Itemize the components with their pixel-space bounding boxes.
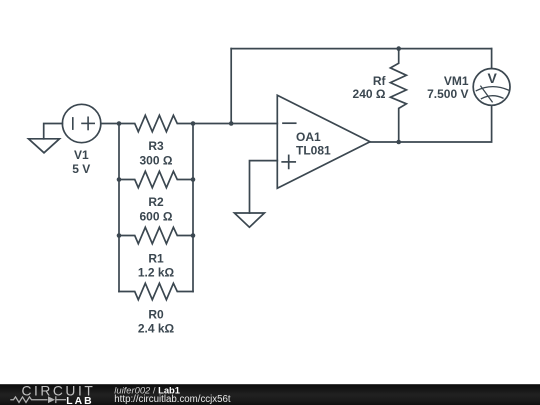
footer credit line xyxy=(114,384,231,405)
resistor R3 xyxy=(119,115,193,131)
junction: left rail at R3 xyxy=(117,121,122,126)
wire: right rail of resistor ladder xyxy=(192,124,194,292)
wire: op-amp output net xyxy=(370,105,492,142)
wire: V1 positive lead to ladder left rail xyxy=(101,123,119,125)
svg-text:1.2 kΩ: 1.2 kΩ xyxy=(138,265,175,279)
label R1 value xyxy=(138,251,175,279)
voltmeter VM1 xyxy=(473,69,510,106)
voltage source V1 xyxy=(62,104,100,142)
label R3 value xyxy=(140,139,173,167)
logo CircuitLab wordmark CIRCUIT xyxy=(22,384,96,399)
logo wordmark LAB xyxy=(66,396,93,405)
label R0 value xyxy=(138,307,175,335)
junction: right rail at R3 xyxy=(191,121,196,126)
footer bar xyxy=(0,384,540,405)
svg-text:R0: R0 xyxy=(148,307,164,321)
svg-text:5 V: 5 V xyxy=(72,162,90,176)
ground (at V1) xyxy=(29,139,60,153)
ground (at OA1 non-inverting input) xyxy=(234,213,264,227)
svg-text:Rf: Rf xyxy=(373,74,387,88)
svg-text:7.500 V: 7.500 V xyxy=(427,87,468,101)
junction: feedback riser on input net xyxy=(229,121,234,126)
svg-text:V1: V1 xyxy=(74,148,89,162)
svg-text:300 Ω: 300 Ω xyxy=(140,153,173,167)
label OA1 part xyxy=(296,130,331,158)
wire: feedback net vertical riser xyxy=(230,49,232,124)
wire: feedback net top horizontal xyxy=(231,48,491,50)
label V1 value xyxy=(72,148,90,176)
op-amp OA1 xyxy=(277,95,370,188)
label R2 value xyxy=(140,195,173,223)
svg-text:240 Ω: 240 Ω xyxy=(353,87,386,101)
logo resistor-diode squiggle xyxy=(10,396,66,403)
svg-text:R2: R2 xyxy=(148,195,164,209)
label Rf value xyxy=(353,74,387,101)
junction: right rail at R1 xyxy=(191,233,196,238)
junction: Rf top on feedback net xyxy=(396,46,401,51)
resistor R1 xyxy=(119,227,193,243)
wire: non-inverting input to ground xyxy=(250,161,278,213)
junction: right rail at R2 xyxy=(191,177,196,182)
label V inside voltmeter VM1 xyxy=(488,70,498,86)
wire: ladder right rail to op-amp inverting input xyxy=(193,123,277,125)
svg-text:http://circuitlab.com/ccjx56t: http://circuitlab.com/ccjx56t xyxy=(114,394,231,405)
svg-text:600 Ω: 600 Ω xyxy=(140,209,173,223)
resistor R2 xyxy=(119,171,193,187)
wire: left rail of resistor ladder xyxy=(118,124,120,292)
junction: left rail at R1 xyxy=(117,233,122,238)
junction: left rail at R2 xyxy=(117,177,122,182)
resistor Rf xyxy=(390,49,406,142)
svg-text:OA1: OA1 xyxy=(296,130,321,144)
svg-text:VM1: VM1 xyxy=(444,74,469,88)
svg-text:TL081: TL081 xyxy=(296,144,331,158)
svg-text:V: V xyxy=(488,70,498,86)
svg-text:2.4 kΩ: 2.4 kΩ xyxy=(138,321,175,335)
resistor R0 xyxy=(119,283,193,299)
svg-text:LAB: LAB xyxy=(66,396,93,405)
wire: V1 negative lead to ground xyxy=(44,124,63,139)
junction: Rf bottom on output net xyxy=(396,140,401,145)
wire: VM1 top lead xyxy=(491,49,493,69)
svg-text:R3: R3 xyxy=(148,139,164,153)
svg-text:R1: R1 xyxy=(148,251,164,265)
label VM1 value xyxy=(427,74,469,101)
